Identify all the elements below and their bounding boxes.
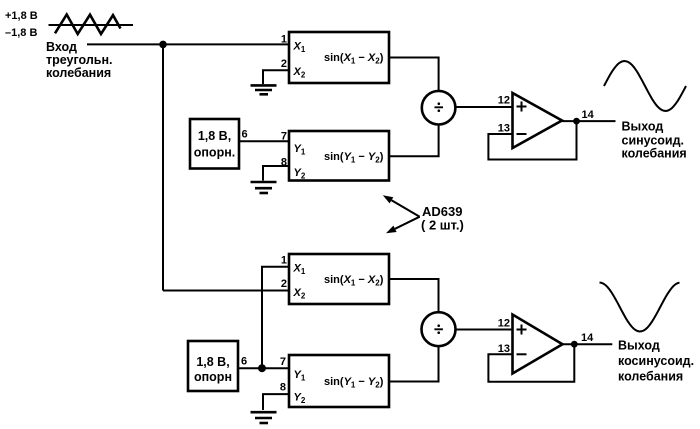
reference source B2 1,8 V опорн [188,341,238,391]
AD639 pointer arrow lower [386,217,420,234]
AD639 pointer arrow upper [383,195,420,216]
wire A1 output [562,120,616,122]
node A2 output junction [571,341,578,348]
node input junction [159,41,167,49]
svg-text:8: 8 [280,382,286,394]
svg-text:12: 12 [498,318,510,330]
svg-text:14: 14 [581,332,594,344]
svg-text:Выход: Выход [618,339,660,353]
node A1 output junction [573,118,580,125]
svg-text:6: 6 [242,129,248,141]
sin block U1 Y section [289,131,389,181]
reference source B1 1,8 V опорн. [190,119,239,169]
wire U1 Y output to divider [389,124,439,156]
svg-text:1: 1 [281,255,287,267]
divider (top) [422,91,456,125]
svg-text:2: 2 [281,278,287,290]
svg-text:+1,8 В: +1,8 В [5,10,38,22]
divider (bottom) [422,312,456,346]
wire U1 X output to divider [389,58,439,92]
A1 minus input mark [517,133,527,135]
wire B2 pin6 to U2 pin7 Y1 [238,367,289,369]
svg-text:косинусоид.: косинусоид. [618,354,694,368]
wire A1 feedback [488,121,576,159]
svg-text:1,8 В,: 1,8 В, [198,129,231,143]
node reference junction [258,364,266,372]
ground (top X2) [251,85,277,94]
triangle wave symbol [55,15,121,35]
svg-text:Выход: Выход [622,120,664,134]
wire U2 X1 to reference node [262,267,289,369]
A2 minus input mark [517,353,527,355]
wire U1 Y2 to ground [263,166,289,181]
svg-text:2: 2 [281,58,287,70]
sin block U1 X section [289,32,389,83]
A1 plus input mark [517,102,527,112]
svg-text:–1,8 В: –1,8 В [5,27,37,39]
wire input to U1 pin1 X1 [87,43,289,45]
svg-text:7: 7 [281,131,287,143]
svg-text:опорн.: опорн. [194,146,235,160]
svg-text:13: 13 [498,343,510,355]
A2 plus input mark [517,325,527,335]
ground (top Y2) [251,182,277,193]
wire A2 feedback [488,344,574,382]
svg-text:6: 6 [241,356,247,368]
wire input bus to U2 pin2 X2 [163,290,289,292]
svg-text:12: 12 [498,95,510,107]
svg-text:( 2 шт.): ( 2 шт.) [421,218,464,233]
wire U2 Y output to divider [389,346,439,381]
svg-text:1: 1 [281,34,287,46]
triangle wave symbol baseline [49,24,134,26]
wire B1 pin6 to U1 pin7 Y1 [239,140,289,142]
svg-text:колебания: колебания [46,66,111,80]
svg-text:14: 14 [582,109,595,121]
op-amp A2 [513,315,563,374]
svg-text:опорн: опорн [194,370,232,384]
op-amp A1 [513,93,563,148]
cosine wave symbol [600,283,680,332]
wire divider out to op-amp A2 [456,329,513,331]
svg-text:Вход: Вход [46,40,77,54]
svg-text:синусоид.: синусоид. [622,134,685,148]
wire divider out to op-amp A1 [455,106,513,108]
svg-text:7: 7 [280,356,286,368]
svg-text:треугольн.: треугольн. [46,53,113,67]
svg-text:колебания: колебания [618,370,683,384]
svg-text:1,8 В,: 1,8 В, [196,355,229,369]
wire U1 X2 to ground [263,70,289,84]
ground (bottom Y2) [251,412,277,423]
sin block U2 X section [289,254,389,304]
wire A2 output [563,343,613,345]
wire main vertical bus to lower channel [162,44,164,290]
sine wave symbol [604,61,686,111]
sin block U2 Y section [289,355,389,407]
wire U2 Y2 to ground [263,394,289,410]
svg-text:13: 13 [498,123,510,135]
svg-text:колебания: колебания [622,147,687,161]
wire U2 X output to divider [389,279,439,312]
